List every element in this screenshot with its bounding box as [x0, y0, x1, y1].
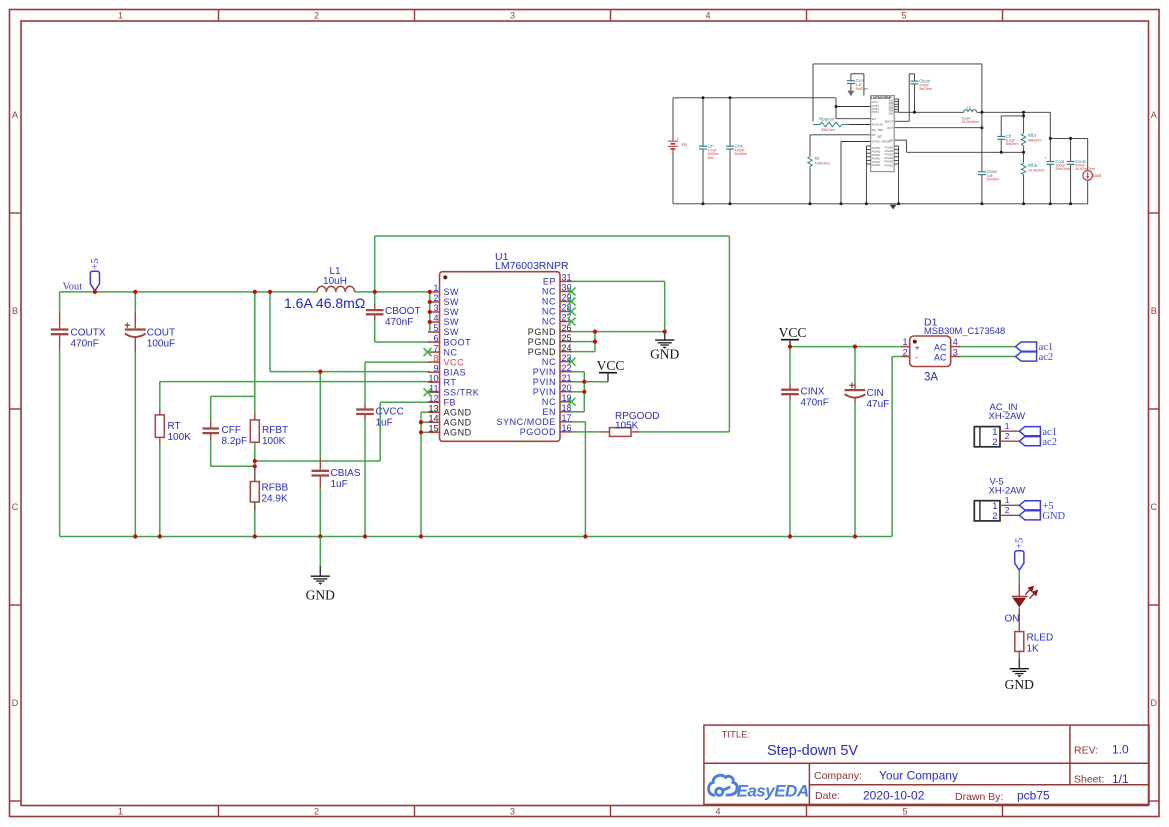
resistor RPGOOD [601, 411, 660, 436]
svg-text:BOOT: BOOT [885, 120, 894, 124]
svg-text:10uH: 10uH [323, 276, 347, 287]
svg-text:+: + [677, 136, 680, 141]
sim junction dots [702, 96, 1073, 205]
svg-text:SW: SW [444, 297, 460, 307]
svg-text:AGND: AGND [444, 428, 472, 438]
svg-text:100kOhm: 100kOhm [815, 162, 831, 166]
svg-text:22: 22 [562, 363, 572, 373]
svg-text:BOOT: BOOT [444, 337, 472, 347]
svg-text:D: D [1150, 698, 1157, 708]
svg-text:Rfbb: Rfbb [1028, 163, 1038, 168]
svg-text:EN: EN [872, 117, 876, 121]
svg-text:3: 3 [953, 347, 958, 357]
LED diode [1005, 582, 1038, 631]
svg-text:PGND: PGND [528, 337, 556, 347]
svg-text:98kOhm: 98kOhm [1028, 139, 1042, 143]
svg-text:2: 2 [902, 347, 907, 357]
svg-text:100uF: 100uF [147, 339, 175, 350]
IC U1 LM76003RNPR [440, 251, 569, 441]
sim capacitor Cboot [911, 78, 932, 91]
svg-text:SYNC/MODE: SYNC/MODE [497, 417, 556, 427]
svg-text:CBIAS: CBIAS [331, 468, 361, 479]
VCC bar at PVIN [599, 372, 617, 374]
svg-text:5: 5 [901, 10, 906, 20]
wire AGND bus [421, 412, 430, 536]
sim capacitor Cout [1044, 156, 1070, 172]
svg-text:5mOhm: 5mOhm [735, 152, 748, 156]
svg-text:Sheet:: Sheet: [1074, 774, 1104, 786]
svg-text:Rfbt: Rfbt [1028, 133, 1037, 138]
svg-text:RT: RT [168, 421, 181, 432]
svg-text:ac2: ac2 [1039, 352, 1054, 363]
EasyEDA logo [709, 775, 809, 800]
svg-text:2: 2 [992, 511, 997, 522]
svg-text:PGND: PGND [528, 347, 556, 357]
svg-text:Drawn By:: Drawn By: [955, 791, 1003, 803]
svg-text:SW: SW [444, 317, 460, 327]
svg-text:CVCC: CVCC [376, 407, 404, 418]
svg-text:5: 5 [902, 807, 907, 817]
svg-text:-: - [915, 352, 918, 362]
ground symbol below rail [319, 566, 321, 576]
sim circuit wires [673, 64, 1088, 204]
svg-text:SW: SW [444, 327, 460, 337]
svg-text:16: 16 [562, 423, 572, 433]
svg-text:24: 24 [562, 343, 572, 353]
svg-text:NC: NC [444, 347, 458, 357]
wire SW node / CBOOT column [375, 236, 430, 342]
svg-text:A: A [1151, 110, 1157, 120]
resistor RLED [1015, 632, 1053, 659]
sim capacitor Cff [997, 134, 1018, 146]
svg-text:TITLE:: TITLE: [722, 730, 751, 741]
svg-text:NC: NC [542, 317, 556, 327]
svg-text:2: 2 [1005, 505, 1010, 515]
sim resistor Rpgood [813, 117, 849, 133]
svg-text:MSB30M_C173548: MSB30M_C173548 [924, 325, 1005, 336]
junction dots main [93, 290, 857, 539]
svg-text:2020-10-02: 2020-10-02 [863, 789, 925, 803]
capacitor CIN (polarized) [845, 383, 890, 410]
svg-text:Step-down 5V: Step-down 5V [767, 743, 858, 759]
svg-text:24.9kOhm: 24.9kOhm [1028, 169, 1045, 173]
svg-text:GND: GND [650, 347, 679, 362]
svg-text:+5: +5 [90, 258, 101, 269]
sim source Vin [668, 136, 688, 155]
sim load current source [1083, 171, 1102, 181]
capacitor CBIAS [312, 458, 361, 490]
svg-text:PVIN: PVIN [533, 387, 556, 397]
svg-text:24.9K: 24.9K [262, 494, 288, 505]
sim resistor Rt [808, 156, 830, 168]
svg-text:5mOhm: 5mOhm [1006, 142, 1019, 146]
diode bridge D1 MSB30M [901, 316, 1005, 383]
svg-text:FB: FB [889, 138, 893, 142]
wire PVIN / EN bus [570, 372, 608, 412]
svg-text:6: 6 [433, 333, 438, 343]
svg-text:REV:: REV: [1074, 744, 1098, 756]
connector AC_IN XH-2AW [974, 402, 1025, 448]
title block text [722, 730, 1129, 803]
svg-text:CINX: CINX [801, 387, 825, 398]
svg-text:105K: 105K [615, 420, 639, 431]
wire VCC net right [790, 347, 901, 537]
wire RT net [160, 382, 430, 537]
svg-text:1uF: 1uF [331, 479, 348, 490]
svg-text:NC: NC [542, 357, 556, 367]
svg-text:C: C [12, 502, 19, 512]
svg-text:8: 8 [433, 353, 438, 363]
svg-text:18: 18 [562, 403, 572, 413]
wire RPGOOD loop [375, 236, 730, 432]
svg-text:16.67mOhm: 16.67mOhm [1075, 167, 1095, 171]
svg-text:2: 2 [433, 293, 438, 303]
svg-text:20mOhm: 20mOhm [1055, 167, 1070, 171]
svg-text:LM76003RNPR: LM76003RNPR [495, 260, 569, 272]
svg-text:1K: 1K [1027, 644, 1040, 655]
sim ground arrow [890, 205, 897, 210]
svg-text:21: 21 [562, 373, 572, 383]
svg-text:2: 2 [1005, 431, 1010, 441]
VCC bar at CINX [781, 339, 799, 341]
wire SYNC/MODE column [570, 422, 585, 537]
svg-text:1: 1 [902, 337, 907, 347]
svg-text:3: 3 [510, 10, 515, 20]
svg-text:3: 3 [433, 303, 438, 313]
capacitor CVCC [356, 403, 404, 429]
sim IC U1 [866, 96, 898, 172]
sim capacitor Cinx [726, 144, 747, 157]
svg-text:Company:: Company: [814, 770, 862, 782]
svg-text:OUT: OUT [887, 126, 894, 130]
wire BIAS / CBIAS column [270, 372, 430, 537]
svg-text:25: 25 [562, 333, 572, 343]
svg-text:31: 31 [562, 273, 572, 283]
svg-text:C: C [1150, 502, 1157, 512]
svg-text:23: 23 [562, 353, 572, 363]
svg-text:Your Company: Your Company [879, 768, 958, 782]
svg-text:PGOOD: PGOOD [872, 123, 884, 127]
capacitor CINX [781, 383, 829, 409]
svg-text:AGND: AGND [444, 407, 472, 417]
svg-text:SW: SW [444, 287, 460, 297]
svg-text:19: 19 [562, 393, 572, 403]
svg-text:4: 4 [433, 313, 438, 323]
svg-text:SYNC_MODE: SYNC_MODE [872, 140, 891, 144]
svg-text:CBOOT: CBOOT [385, 306, 421, 317]
svg-text:VCC: VCC [597, 358, 625, 373]
svg-text:5mOhm: 5mOhm [987, 178, 1000, 182]
svg-text:2: 2 [992, 437, 997, 448]
svg-text:1/1: 1/1 [1112, 772, 1129, 786]
net flag ac1 (D1) [1016, 342, 1037, 351]
connector V-5 XH-2AW [974, 477, 1025, 522]
svg-text:470nF: 470nF [385, 317, 413, 328]
svg-text:Vin: Vin [681, 142, 688, 147]
svg-text:Rt: Rt [815, 156, 820, 161]
svg-text:COUTX: COUTX [71, 328, 106, 339]
svg-text:10: 10 [428, 373, 438, 383]
svg-text:GND: GND [1005, 677, 1034, 692]
svg-text:VCC: VCC [444, 357, 465, 367]
svg-text:D: D [12, 698, 19, 708]
svg-text:load: load [1093, 173, 1101, 178]
svg-text:28: 28 [562, 303, 572, 313]
sim capacitor Coutx [1067, 159, 1095, 171]
svg-text:B: B [1151, 306, 1157, 316]
svg-text:Rpgood: Rpgood [819, 117, 835, 122]
svg-text:4: 4 [705, 10, 710, 20]
svg-text:FB: FB [444, 397, 457, 407]
svg-text:17: 17 [562, 413, 572, 423]
capacitor COUTX [51, 313, 106, 350]
svg-text:1: 1 [433, 283, 438, 293]
svg-text:EN: EN [542, 407, 556, 417]
svg-text:50v: 50v [708, 156, 714, 160]
sim resistor Rfbt [1021, 132, 1041, 147]
wire D1 AC outputs [960, 347, 1016, 357]
svg-text:PVIN: PVIN [533, 367, 556, 377]
svg-text:SW: SW [444, 307, 460, 317]
svg-text:AGND: AGND [444, 417, 472, 427]
svg-text:9: 9 [433, 363, 438, 373]
svg-text:470nF: 470nF [801, 398, 829, 409]
svg-text:24.9mOhm: 24.9mOhm [962, 120, 980, 124]
svg-text:1: 1 [1005, 495, 1010, 505]
svg-text:13: 13 [428, 403, 438, 413]
svg-text:SS/TRK: SS/TRK [444, 387, 480, 397]
svg-text:PGND: PGND [885, 163, 895, 167]
power flag +5 (LED) [1015, 551, 1024, 571]
svg-text:SW: SW [888, 111, 893, 115]
title block table [704, 725, 1149, 804]
net flag ac2 (AC_IN) [1019, 437, 1040, 446]
U1 pins left [424, 283, 480, 437]
wire bottom GND rail [60, 536, 893, 538]
svg-text:B: B [12, 306, 18, 316]
svg-text:AC: AC [934, 352, 947, 362]
svg-text:SS_TRK: SS_TRK [872, 128, 884, 132]
svg-text:8.2pF: 8.2pF [222, 436, 248, 447]
svg-text:Vout: Vout [63, 282, 83, 293]
wire LED column [1018, 570, 1020, 582]
svg-text:AC: AC [934, 343, 947, 353]
net flag ac1 (AC_IN) [1019, 427, 1040, 436]
svg-text:RLED: RLED [1027, 633, 1054, 644]
svg-text:Date:: Date: [815, 790, 840, 802]
svg-text:ac2: ac2 [1042, 437, 1057, 448]
wire EP / PGND to GND [570, 281, 665, 351]
svg-text:100K: 100K [168, 432, 192, 443]
net flag GND (V-5) [1019, 511, 1040, 520]
svg-text:RFBB: RFBB [262, 483, 289, 494]
svg-text:VCC: VCC [779, 325, 807, 340]
capacitor COUT (polarized) [125, 312, 176, 352]
svg-text:RT: RT [872, 133, 876, 137]
svg-text:3: 3 [510, 807, 515, 817]
svg-text:NC: NC [542, 307, 556, 317]
svg-text:7: 7 [433, 343, 438, 353]
svg-text:29: 29 [562, 293, 572, 303]
svg-text:COUT: COUT [147, 328, 175, 339]
svg-text:55kOhm: 55kOhm [821, 128, 835, 132]
svg-text:4: 4 [715, 807, 720, 817]
svg-text:PVIN: PVIN [533, 377, 556, 387]
svg-text:NC: NC [542, 397, 556, 407]
svg-text:3A: 3A [924, 372, 938, 384]
sim capacitor Cbias [978, 169, 999, 182]
svg-text:2: 2 [314, 10, 319, 20]
ground symbol at RLED [1018, 659, 1020, 669]
svg-text:26: 26 [562, 323, 572, 333]
svg-text:1.0: 1.0 [1112, 742, 1129, 756]
svg-text:5mOhm: 5mOhm [919, 87, 932, 91]
svg-text:+: + [915, 342, 920, 352]
svg-text:PGND: PGND [528, 327, 556, 337]
svg-text:30: 30 [562, 283, 572, 293]
resistor RFBT [250, 414, 288, 447]
svg-text:GND: GND [1042, 511, 1065, 522]
svg-text:1: 1 [118, 807, 123, 817]
svg-text:RFBT: RFBT [262, 425, 288, 436]
resistor RT [155, 409, 191, 443]
sim resistor Rfbb [1021, 162, 1044, 174]
svg-text:CFF: CFF [222, 425, 241, 436]
svg-text:PVIN: PVIN [872, 110, 879, 114]
net flag ac2 (D1) [1016, 352, 1037, 361]
svg-text:27: 27 [562, 313, 572, 323]
sim inductor L1 [962, 105, 980, 124]
sim capacitor Cin [699, 144, 719, 160]
svg-text:AGND: AGND [872, 163, 882, 167]
capacitor CBOOT [366, 304, 421, 329]
svg-text:470nF: 470nF [71, 339, 99, 350]
svg-text:CIN: CIN [867, 388, 884, 399]
wire FB divider top node [211, 396, 430, 466]
svg-text:EasyEDA: EasyEDA [737, 781, 809, 800]
svg-text:+5: +5 [1014, 538, 1025, 549]
svg-text:RT: RT [444, 377, 457, 387]
GND stub below rail [319, 537, 321, 566]
net flag +5 (V-5) [1019, 501, 1040, 510]
wire Vout net [60, 292, 430, 537]
U1 pins right [497, 273, 576, 437]
inductor L1 [317, 266, 355, 292]
svg-text:2: 2 [314, 807, 319, 817]
svg-text:1uF: 1uF [376, 418, 393, 429]
svg-text:BT: BT [878, 135, 883, 139]
wire VCC pin8 / CVCC column [365, 362, 430, 536]
svg-text:BIAS: BIAS [444, 367, 467, 377]
svg-text:PGOOD: PGOOD [520, 427, 556, 437]
svg-text:15: 15 [428, 424, 438, 434]
svg-text:20: 20 [562, 383, 572, 393]
svg-text:L1: L1 [967, 105, 972, 110]
svg-text:5: 5 [433, 323, 438, 333]
svg-text:1: 1 [118, 10, 123, 20]
power flag +5 Vout [90, 271, 99, 291]
capacitor CFF [202, 421, 247, 447]
sim capacitor Cvcc [847, 78, 868, 96]
svg-text:NC: NC [542, 287, 556, 297]
svg-text:1: 1 [1005, 421, 1010, 431]
svg-text:5mOhm: 5mOhm [856, 87, 869, 91]
svg-text:100K: 100K [262, 436, 286, 447]
svg-text:pcb75: pcb75 [1017, 789, 1050, 803]
resistor RFBB [250, 466, 288, 536]
svg-text:ON: ON [1005, 614, 1020, 625]
svg-text:GND: GND [306, 587, 335, 602]
svg-text:NC: NC [542, 297, 556, 307]
ground symbol at EP [664, 332, 666, 341]
svg-text:14: 14 [428, 413, 438, 423]
svg-text:1.6A 46.8mΩ: 1.6A 46.8mΩ [284, 295, 365, 311]
svg-text:47uF: 47uF [867, 399, 890, 410]
svg-text:4: 4 [953, 337, 958, 347]
svg-text:A: A [12, 110, 18, 120]
svg-text:EP: EP [543, 277, 556, 287]
